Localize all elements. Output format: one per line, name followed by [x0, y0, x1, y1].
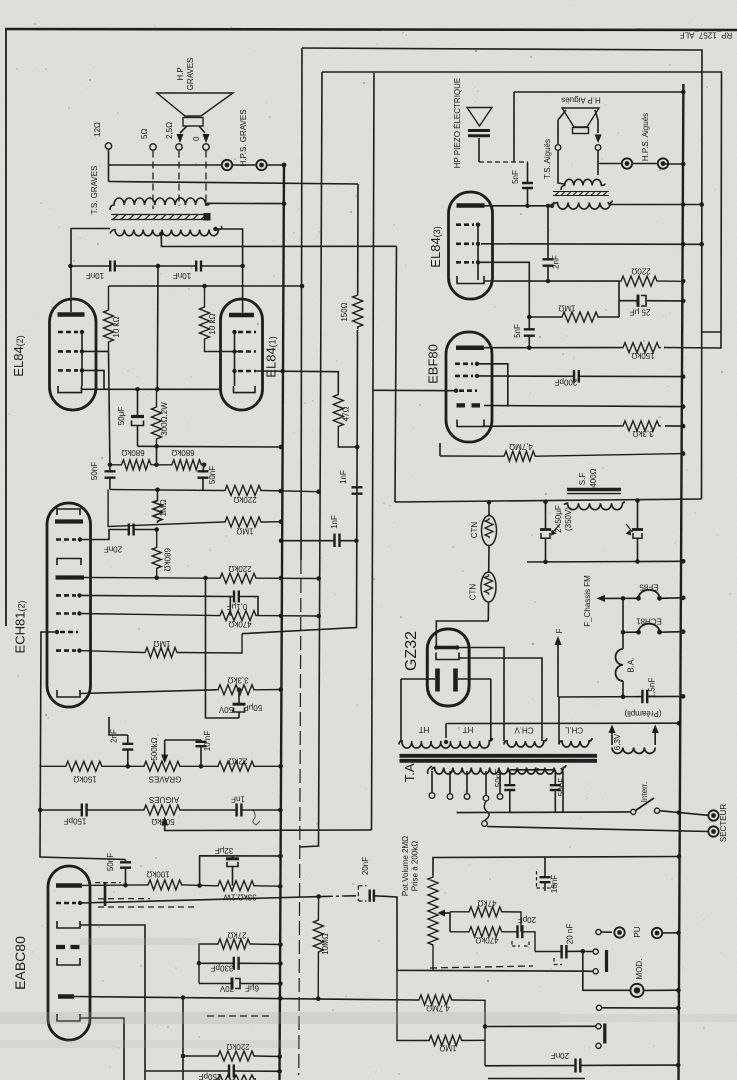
capacitor 20nF switched: [370, 890, 374, 902]
junction: [279, 576, 284, 581]
wire secondary right end: [216, 229, 243, 299]
junction: [232, 349, 236, 353]
secondary tap: [159, 232, 163, 236]
junction: [80, 368, 84, 372]
capacitor 1nF on V5: [352, 487, 363, 493]
wire primary right to V1: [205, 202, 284, 204]
capacitor 1nF #2: [281, 540, 356, 542]
capacitor 10nF pot: [200, 740, 202, 766]
ECH81 grid row 2: [56, 594, 76, 597]
junction: [621, 596, 626, 601]
junction: [543, 499, 548, 504]
capacitor 50uF: [137, 389, 139, 416]
tube GZ32: [427, 629, 469, 706]
resistor 10M: [313, 897, 323, 999]
shield dashes: [95, 882, 121, 884]
TA secondary CHL: [559, 738, 592, 747]
junction: [316, 614, 321, 619]
EL84(3) g3: [456, 223, 474, 226]
3.3k row: [621, 421, 661, 431]
terminal 0: [203, 144, 209, 150]
terminal 12ohm: [105, 143, 111, 149]
EABC80 diode bars: [56, 945, 80, 949]
junction: [476, 260, 480, 264]
vertical 205 drop: [206, 578, 240, 718]
junction: [455, 645, 459, 649]
thermistor CTN 1: [487, 500, 492, 505]
junction: [699, 202, 704, 207]
GZ32 anode wires: [401, 678, 491, 680]
pot wiper arrow: [445, 912, 450, 914]
junction: [277, 1069, 282, 1074]
junction: [525, 204, 529, 208]
row y885 100k + 33k: [82, 880, 280, 891]
capacitor 1nF aigues: [237, 804, 242, 817]
junction: [681, 242, 686, 247]
pot GRAVES 500k: [142, 761, 216, 771]
resistor 150 ohm on V5: [353, 293, 363, 329]
junction: [634, 987, 640, 993]
HPS GRAVES terminal 2: [256, 160, 266, 170]
capacitor 10nF left: [110, 261, 115, 272]
4.7M bottom row: [417, 995, 485, 1066]
junction: [278, 764, 283, 769]
wire y92 piezo top: [514, 91, 683, 93]
EL84(1) g1 wire to 47ohm: [256, 371, 338, 393]
wire V6 secondary tap feed: [395, 246, 397, 502]
resistor 300ohm 2W: [152, 389, 162, 446]
junction: [681, 424, 686, 429]
junction: [108, 463, 113, 468]
capacitor 5nF 2: [528, 317, 530, 348]
junction: [677, 721, 682, 726]
scribble artifact: [253, 810, 260, 825]
speaker HP GRAVES cone: [157, 93, 233, 116]
EL84(2) g2: [58, 350, 78, 353]
junction: [156, 264, 161, 269]
bottom cap row: [145, 1070, 280, 1072]
junction: [197, 883, 202, 888]
junction: [699, 242, 704, 247]
220k row y578: [84, 573, 319, 583]
tube EBF80: [446, 332, 492, 442]
junction: [280, 369, 285, 374]
partial bottom resistor: [216, 1075, 256, 1080]
capacitor 32uF: [232, 856, 234, 858]
resistor 10k #2: [200, 286, 241, 352]
arrow to 2.5: [177, 134, 184, 143]
EL84(2) g3: [58, 331, 78, 334]
EL84(1) cathode: [234, 386, 256, 393]
wire y161 HPS aigues line: [663, 163, 683, 165]
wire path A top: [302, 48, 702, 499]
junction: [550, 204, 554, 208]
junction: [279, 489, 284, 494]
border frame left: [5, 29, 7, 626]
junction: [635, 559, 640, 564]
EBF80 diode bars: [457, 403, 481, 407]
pot volume body: [428, 875, 438, 970]
junction: [232, 369, 236, 373]
EABC80 diode bracket 1: [57, 921, 80, 928]
EABC80 plate bar: [56, 883, 82, 888]
ECH81 grid row 1: [56, 538, 76, 541]
junction: [316, 489, 321, 494]
junction: [78, 537, 82, 541]
junction: [527, 345, 532, 350]
capacitor 150pF: [82, 804, 87, 817]
TA primary taps: [432, 771, 500, 794]
wire y165 to HPS: [109, 164, 222, 166]
junction: [202, 284, 207, 289]
junction: [434, 645, 438, 649]
junction: [676, 1063, 681, 1068]
junction: [483, 1024, 488, 1029]
capacitor 2nF tweeter: [547, 206, 549, 281]
TA primary: [432, 765, 566, 774]
junction: [278, 996, 283, 1001]
3.3k row y689: [216, 685, 281, 695]
20nF bottom: [485, 1064, 678, 1067]
junction: [475, 374, 479, 378]
junction: [279, 519, 284, 524]
junction: [154, 527, 159, 532]
junction: [78, 901, 82, 905]
junction: [546, 279, 550, 283]
junction: [77, 593, 81, 597]
speaker HP GRAVES driver: [183, 118, 203, 127]
bus V2: [301, 48, 302, 560]
ECH81 bracket 2: [57, 559, 81, 566]
junction: [80, 330, 84, 334]
tube EL84(2): [50, 299, 97, 410]
lower contacts: [596, 1024, 601, 1029]
junction: [155, 387, 160, 392]
grid wire y903 to 10M / 20nF: [80, 896, 356, 903]
pot top line: [433, 857, 679, 876]
junction: [278, 854, 283, 859]
junction: [546, 204, 550, 208]
junction: [677, 854, 682, 859]
TA core: [400, 754, 598, 758]
junction: [681, 559, 686, 564]
capacitor 50nF #2: [203, 465, 204, 490]
junction: [80, 349, 84, 353]
TS GRAVES secondary coil: [110, 226, 222, 236]
EBF80 g2: [455, 375, 473, 378]
TA primary right end: [561, 768, 563, 812]
rail y697 + 1.5nF: [558, 695, 683, 698]
capacitor 5nF piezo: [527, 163, 529, 206]
riser to 32uF line: [200, 856, 281, 886]
junction: [444, 740, 448, 744]
6.3V winding: [612, 748, 655, 754]
junction: [278, 687, 283, 692]
TA secondary HT: [399, 738, 492, 748]
EL84(1) g3: [238, 331, 256, 334]
junction: [581, 949, 586, 954]
capacitor 10nF right: [196, 261, 201, 272]
junction: [199, 764, 204, 769]
junction: [277, 1054, 282, 1059]
EL84(1) plate: [229, 313, 254, 318]
junction: [316, 996, 321, 1001]
left agc wire down: [40, 632, 126, 860]
pot AIGUES 500k: [142, 805, 236, 815]
ground rail y562: [527, 560, 683, 563]
tube EABC80: [48, 866, 90, 1040]
cap feedback vertical: [156, 266, 159, 389]
330pF row: [199, 962, 280, 964]
EABC80 bottom bracket: [57, 1014, 80, 1021]
EL84(3) cathode: [457, 276, 484, 284]
ECH81 cathode: [57, 690, 80, 697]
1M row y653: [80, 634, 243, 658]
ECH81 grid row 5: [56, 649, 76, 652]
wire V374 EBF80 g3 line: [372, 73, 375, 830]
junction: [681, 162, 686, 167]
EABC80 cathode bar: [58, 994, 74, 999]
470k row + 20pF: [450, 927, 535, 952]
resistor 680k vertical: [152, 530, 161, 578]
junction: [635, 498, 640, 503]
wire y244 EL84(3) g2: [481, 243, 702, 246]
capacitor 20nF: [129, 524, 134, 536]
junction: [282, 163, 287, 168]
EL84(2) plate: [58, 312, 85, 317]
T.S. Aigues core: [553, 192, 609, 196]
cathode line to EL84(1): [82, 388, 221, 390]
wire speaker to arrows: [180, 126, 205, 133]
heater EF85: [639, 590, 660, 599]
6uF 70V row: [199, 983, 280, 985]
junction: [279, 445, 284, 450]
junction: [621, 630, 626, 635]
junction: [126, 764, 131, 769]
wire between terminals: [233, 164, 285, 166]
wire path B top: [322, 72, 722, 348]
ECH81 plate bar 1: [55, 519, 83, 523]
EL84(3) g1: [456, 261, 474, 264]
capacitor 0.1uF: [230, 597, 258, 616]
smudge bands: [0, 1012, 560, 1024]
junction: [77, 648, 81, 652]
1M bottom row: [397, 970, 485, 1045]
bus V1 main: [280, 165, 285, 1080]
ECH81 grid row 3: [56, 612, 76, 615]
47k row: [450, 907, 521, 932]
20nF coupling: [535, 950, 583, 952]
1M row tweeter: [527, 315, 532, 320]
resistor 47 ohm: [333, 393, 357, 448]
HPS GRAVES terminal 1: [222, 160, 232, 170]
junction: [278, 942, 283, 947]
220k bottom row: [183, 1051, 280, 1061]
junction: [681, 451, 686, 456]
EBF80 plate: [456, 345, 484, 350]
27k row: [199, 939, 281, 984]
wire y204 TS aigues right: [609, 204, 702, 206]
junction: [68, 264, 73, 269]
T.S. Aigues primary: [561, 179, 605, 190]
arrow to 0: [203, 134, 210, 143]
switch Interr: [631, 809, 636, 814]
200pF row: [477, 375, 683, 378]
border frame top: [5, 29, 737, 30]
junction: [279, 614, 284, 619]
junction: [657, 630, 662, 635]
junction: [677, 810, 682, 815]
junction: [476, 242, 480, 246]
junction: [621, 694, 626, 699]
tube EL84(1): [221, 299, 263, 410]
EL84(2) g1: [58, 369, 78, 372]
junction: [135, 387, 140, 392]
capacitor 2nF: [109, 717, 128, 735]
terminal 5ohm: [150, 144, 156, 150]
junction: [657, 596, 662, 601]
junction: [282, 201, 287, 206]
junction: [676, 931, 681, 936]
resistor 680k #2: [170, 460, 204, 470]
junction: [543, 560, 548, 565]
220 ohm row: [619, 276, 683, 286]
junction: [636, 630, 641, 635]
F arrow: [557, 645, 559, 697]
EBF80 g3 to left: [459, 389, 477, 392]
bottom rail: [457, 811, 631, 814]
150k row: [621, 343, 661, 353]
EBF80 cathode: [457, 420, 484, 427]
caps 2x50uF 350V: [545, 502, 547, 562]
junction: [203, 576, 208, 581]
EL84(2) cathode: [58, 386, 82, 393]
tube EL84(3): [449, 192, 493, 299]
TS GRAVES core: [111, 215, 209, 220]
GZ32 anodes: [438, 669, 456, 692]
junction: [55, 630, 59, 634]
junction: [181, 995, 186, 1000]
T.S. Aigues secondary: [554, 201, 612, 210]
tube ECH81(2): [47, 503, 91, 707]
EL84(1) g1: [238, 370, 256, 373]
junction: [240, 264, 245, 269]
SECTEUR terminals: [708, 810, 718, 820]
PU terminals: [596, 929, 601, 934]
junction: [155, 488, 160, 493]
AIGUES row y810: [38, 808, 43, 813]
junction: [278, 884, 283, 889]
junction: [454, 389, 458, 393]
resistor 680k #1: [110, 460, 170, 470]
MOD jack: [583, 951, 631, 990]
junction: [475, 362, 479, 366]
470k row y616: [80, 611, 319, 621]
4.7M row: [440, 451, 683, 461]
EABC80 diode bracket 2: [57, 958, 80, 965]
capacitor 25uF: [618, 281, 620, 317]
coil B.A.: [616, 649, 623, 681]
capacitor 50nF #1: [109, 465, 111, 490]
junction: [154, 444, 159, 449]
row y490 + 220k: [110, 486, 319, 496]
wire stub 702-721: [702, 331, 721, 333]
switch contacts top: [585, 950, 593, 952]
EBF80 g1: [455, 362, 473, 365]
resistor 10k #1: [104, 286, 114, 351]
terminal 2.5ohm: [176, 144, 182, 150]
wire secondary left to EL84(2) plate: [71, 229, 110, 300]
wire 12ohm down: [108, 149, 110, 181]
wire bottom partial: [488, 1078, 585, 1080]
TA secondary CHV: [504, 738, 547, 747]
junction: [77, 611, 81, 615]
junction: [316, 576, 321, 581]
junction: [197, 961, 202, 966]
capacitor 50uF 50V: [237, 687, 242, 692]
junction: [681, 299, 686, 304]
wire y181: [109, 182, 359, 185]
heater ECH81: [622, 598, 624, 649]
dashed taps: [152, 151, 154, 210]
TS GRAVES primary coil: [110, 198, 210, 210]
50nF caps pair: [510, 768, 556, 770]
dashed row y1016: [207, 1015, 270, 1017]
contact y1008: [596, 1005, 601, 1010]
row y523 + 1M: [108, 490, 281, 528]
EABC80 grid row: [56, 902, 76, 905]
screen supply line y286: [109, 285, 303, 287]
bus right main: [679, 84, 684, 1080]
junction: [681, 279, 686, 284]
EL84(3) g2: [456, 243, 474, 246]
ECH81 plate bar 2: [56, 575, 85, 579]
junction: [476, 223, 480, 227]
GRAVES row y766: [40, 761, 142, 771]
junction: [681, 596, 686, 601]
thermistor CTN 2: [481, 572, 496, 602]
junction: [681, 629, 686, 634]
junction dot: [681, 90, 686, 95]
junction: [681, 202, 686, 207]
ECH81 grid row 4 (to left): [60, 631, 78, 634]
junction: [154, 576, 159, 581]
GZ32 cathode bracket: [436, 653, 459, 660]
junction: [154, 463, 159, 468]
22k row: [216, 761, 281, 771]
junction: [316, 894, 321, 899]
junction: [681, 404, 686, 409]
junction: [278, 808, 283, 813]
GZ32 filament: [436, 646, 457, 649]
junction: [181, 1054, 186, 1059]
junction: [279, 538, 284, 543]
junction: [213, 227, 217, 231]
junction: [355, 445, 360, 450]
junction: [123, 883, 128, 888]
wire to 20nF: [80, 530, 157, 540]
EL84(3) plate: [457, 203, 485, 208]
bus V4: [300, 72, 322, 847]
junction: [681, 374, 686, 379]
junction: [681, 694, 686, 699]
bus V5: [242, 184, 358, 634]
dashed line under pot: [430, 966, 533, 968]
10nF dashed cap: [544, 857, 546, 891]
junction: [676, 988, 681, 993]
junction: [636, 596, 641, 601]
junction: [676, 1006, 681, 1011]
